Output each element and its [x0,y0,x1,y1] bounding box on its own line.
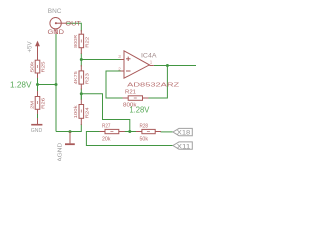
wire node B to R27/R28 junction [81,94,130,132]
svg-text:100k: 100k [73,104,78,118]
resistor R21 [123,97,129,99]
wire R21 right to output junction [148,66,167,99]
svg-text:4K75: 4K75 [73,71,78,85]
svg-text:+5V: +5V [28,42,34,53]
svg-text:GND: GND [48,30,65,36]
op-amp IC4A triangle [124,51,149,78]
svg-text:R21: R21 [125,89,136,95]
svg-text:BNC: BNC [48,8,62,15]
BNC shield pin stub [55,29,57,34]
junction node B [80,92,83,95]
wire BNC shield vertical down to AGND rail [55,34,57,132]
connector X1 BNC circle [50,18,61,29]
wire R28 right to X18 flag [161,131,173,133]
svg-text:R26: R26 [41,97,46,109]
flag X11 [173,142,192,149]
wire BNC OUT to R22 top [66,23,81,31]
junction R27/R28 1.28V [128,130,131,133]
flag X18 [173,128,192,135]
junction node A [80,58,83,61]
wire op-amp - input to feedback corner [106,71,123,98]
resistor R27 [100,131,106,133]
wire AGND rail to R24 bottom [56,124,81,132]
junction output feedback [166,64,169,67]
resistor R23 [80,65,82,71]
svg-text:GND: GND [31,128,42,134]
svg-text:IC4A: IC4A [141,52,157,59]
ground AGND symbol [69,132,71,144]
svg-text:X11: X11 [177,143,191,150]
svg-text:R23: R23 [84,73,89,85]
op-amp + input stub [121,59,125,61]
junction 1.28V left node [36,83,39,86]
op-amp output stub [149,65,153,67]
wire node A to op-amp + input [81,59,120,61]
svg-text:R27: R27 [102,123,111,129]
svg-text:1.28V: 1.28V [10,79,32,89]
ground GND symbol left [37,118,39,124]
wire node A vertical R22 bottom / R23 top [80,53,82,67]
supply +5V arrow [37,45,39,61]
wire 1.28V node to BNC shield vertical [38,84,57,86]
svg-text:OUT: OUT [65,21,81,27]
svg-text:50k: 50k [140,137,149,143]
svg-text:2M: 2M [29,101,34,109]
svg-text:X18: X18 [177,130,191,137]
svg-text:R28: R28 [140,123,149,129]
resistor R24 [80,100,82,105]
wire R23 bottom to node B [80,89,82,100]
svg-text:AGND: AGND [57,143,63,161]
BNC center pin line [56,22,66,24]
op-amp plus sign [126,58,131,60]
op-amp minus sign [126,70,131,72]
junction on BNC shield vertical [55,83,58,86]
svg-text:R25: R25 [41,61,46,73]
svg-text:50k: 50k [29,60,34,72]
resistor R22 [80,30,82,34]
wire R25 bottom lead to node [37,77,39,92]
svg-text:1.28V: 1.28V [129,106,150,115]
svg-text:800R: 800R [73,34,78,48]
wire R26 bottom to GND symbol [37,113,39,123]
wire op-amp output to right edge [154,65,196,67]
resistor R26 [37,91,39,97]
wire R27 right to junction to R28 left [125,131,137,133]
wire X11 net to R27 left [86,132,172,146]
junction AGND symbol attach [69,130,72,133]
resistor R25 [37,56,39,60]
svg-text:R24: R24 [84,107,89,119]
svg-text:20k: 20k [102,137,111,143]
resistor R28 [136,131,142,133]
wire R24 top lead [80,94,82,100]
op-amp - input stub [121,70,125,72]
svg-text:AD8532ARZ: AD8532ARZ [127,82,180,88]
svg-text:R22: R22 [84,36,89,48]
